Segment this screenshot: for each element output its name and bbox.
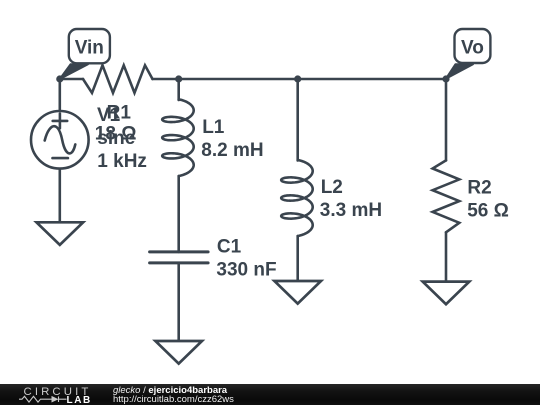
label L1 value 8.2 mH: [201, 117, 263, 161]
ground (below V1): [37, 222, 84, 245]
ground (below L2): [274, 281, 321, 304]
wire L2 bottom to ground: [296, 236, 299, 281]
label V1 (name, type, frequency): [97, 105, 147, 172]
svg-text:3.3 mH: 3.3 mH: [320, 200, 382, 221]
inductor L2: [281, 160, 313, 236]
wire node D to R2 top lead: [445, 79, 448, 160]
voltage source V1: [31, 111, 89, 169]
svg-text:C1: C1: [217, 236, 242, 257]
wire top rail node B to node C: [179, 78, 298, 81]
svg-text:L1: L1: [202, 117, 225, 138]
capacitor C1: [150, 252, 209, 263]
wire R2 bottom lead to ground: [445, 232, 448, 281]
svg-text:1 kHz: 1 kHz: [97, 151, 147, 172]
svg-text:8.2 mH: 8.2 mH: [201, 140, 263, 161]
footer bar: [0, 384, 540, 405]
svg-text:R2: R2: [467, 177, 491, 198]
inductor L1: [162, 99, 194, 176]
label L2 value 3.3 mH: [320, 177, 382, 221]
wire top rail node C to node D: [298, 78, 446, 81]
label R2 value 56 ohm: [467, 177, 509, 221]
net flag Vo: [446, 29, 490, 79]
wire top rail node A to R1 left lead: [60, 78, 83, 81]
wire L1 bottom to C1 top plate: [177, 176, 180, 252]
node D (Vo net junction): [442, 75, 449, 82]
svg-text:56 Ω: 56 Ω: [467, 201, 509, 222]
svg-text:Vo: Vo: [461, 38, 484, 59]
net flag Vin: [60, 29, 110, 79]
svg-text:330 nF: 330 nF: [216, 259, 276, 280]
svg-text:18 Ω: 18 Ω: [95, 124, 137, 145]
CircuitLab logo: [0, 384, 100, 405]
label C1 value 330 nF: [216, 236, 276, 280]
resistor R2: [433, 160, 460, 232]
label R1 value 18 ohm: [95, 103, 137, 145]
footer credit text: [113, 386, 234, 405]
wire V1 minus terminal to ground: [58, 170, 61, 223]
wire node A to V1 plus terminal: [58, 79, 61, 110]
svg-text:LAB: LAB: [67, 395, 92, 405]
svg-text:Vin: Vin: [75, 37, 104, 58]
node A (Vin net junction): [56, 75, 63, 82]
svg-text:L2: L2: [321, 177, 343, 198]
node C (L2 junction): [294, 75, 301, 82]
node B (L1 junction): [175, 75, 182, 82]
svg-text:R1: R1: [107, 103, 132, 124]
resistor R1: [83, 65, 153, 93]
wire C1 bottom plate to ground: [177, 263, 180, 341]
wire R1 right lead to node B: [153, 78, 179, 81]
wire node B to L1 top: [177, 79, 180, 100]
ground (below C1): [155, 341, 202, 364]
ground (below R2): [423, 282, 470, 305]
wire node C to L2 top: [296, 79, 299, 161]
